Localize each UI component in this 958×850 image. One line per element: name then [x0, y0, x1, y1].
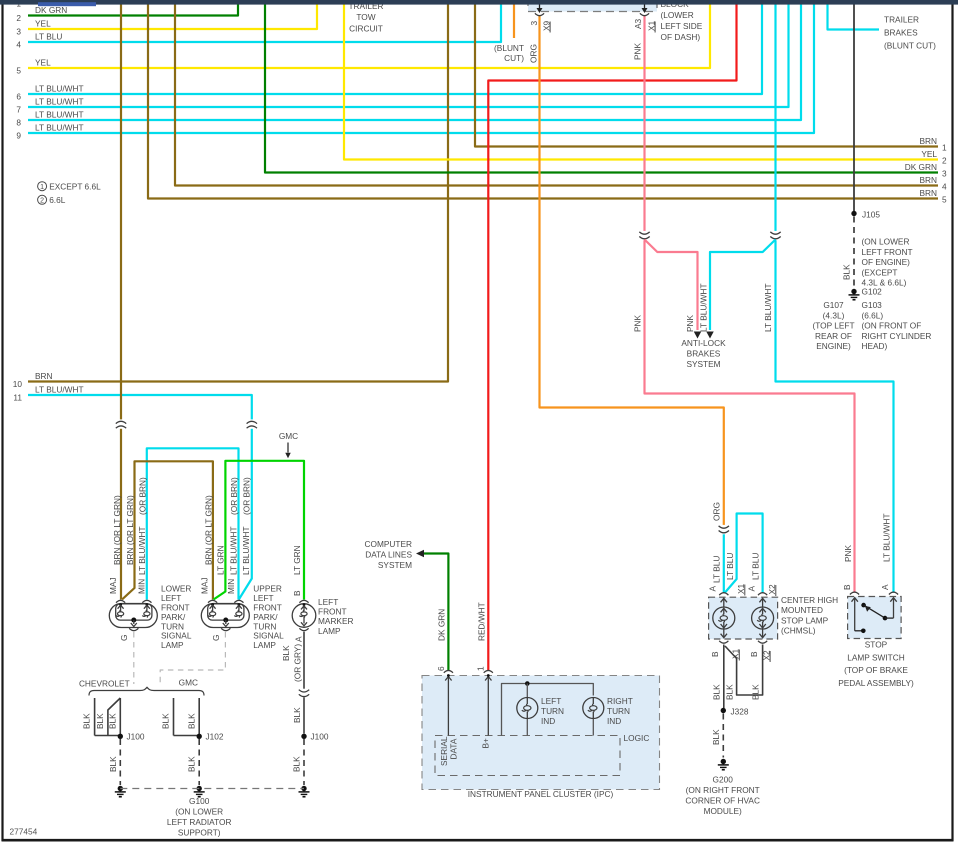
svg-text:CORNER OF HVAC: CORNER OF HVAC	[685, 796, 760, 806]
switch pin cups	[850, 592, 898, 594]
svg-text:(OR BRN): (OR BRN)	[229, 477, 239, 515]
labels BLK chevrolet	[82, 713, 118, 729]
svg-text:LOGIC: LOGIC	[624, 733, 650, 743]
labels BLK gmc	[161, 713, 197, 729]
block pin arrow X9-3	[537, 0, 543, 13]
label PNK branch	[685, 314, 695, 332]
wire YEL 2 horizontal	[344, 5, 947, 166]
svg-text:A3: A3	[633, 18, 643, 29]
switch mechanism	[852, 598, 897, 633]
text instrument panel cluster	[468, 789, 614, 799]
label LT BLU/WHT main	[763, 283, 773, 332]
text trailer tow circuit	[348, 1, 383, 34]
wire 1 number	[16, 0, 21, 9]
svg-text:YEL: YEL	[35, 19, 51, 29]
svg-text:EXCEPT 6.6L: EXCEPT 6.6L	[49, 181, 101, 191]
wire BLK (OR GRY) from marker lamp	[303, 632, 305, 691]
ipc b+ pin arrow	[485, 674, 491, 735]
connector block (lower left side of dash)	[528, 0, 657, 12]
svg-text:4: 4	[942, 182, 947, 192]
label BLK left ground wire	[108, 756, 118, 772]
svg-text:J102: J102	[206, 732, 224, 742]
block pin arrow X1-A3	[642, 0, 648, 13]
svg-text:YEL: YEL	[921, 149, 937, 159]
svg-text:J100: J100	[127, 732, 145, 742]
lamp upper left front park/turn signal	[201, 600, 249, 630]
wire BLK dashed to G100 right	[303, 739, 305, 785]
dashed ground lead lamp1	[133, 632, 135, 684]
pin labels chmsl bottom	[710, 648, 772, 662]
svg-text:9: 9	[16, 131, 21, 141]
svg-text:COMPUTER: COMPUTER	[365, 539, 412, 549]
svg-text:BLK: BLK	[82, 713, 92, 729]
label BLK below connector	[292, 707, 302, 723]
text left front marker lamp	[318, 597, 354, 636]
svg-text:BLK: BLK	[95, 713, 105, 729]
wire LT BLU/WHT branch to anti-lock brakes	[710, 240, 776, 331]
wire BLK gmc b	[198, 698, 200, 734]
svg-text:BLK: BLK	[711, 684, 721, 700]
svg-text:(TOP LEFT: (TOP LEFT	[812, 321, 854, 331]
svg-text:BRN: BRN	[919, 175, 937, 185]
wire BLK chevrolet a	[94, 698, 96, 736]
svg-text:5: 5	[942, 195, 947, 205]
svg-text:4: 4	[16, 40, 21, 50]
svg-text:YEL: YEL	[35, 58, 51, 68]
top navy separator bar	[0, 0, 958, 5]
arrow to computer data lines system	[416, 550, 424, 558]
text block location	[661, 0, 703, 42]
svg-text:PNK: PNK	[843, 544, 853, 562]
svg-text:A: A	[294, 636, 304, 642]
svg-text:BLK: BLK	[107, 713, 117, 729]
wire PNK branch to anti-lock brakes	[645, 240, 698, 331]
svg-text:LT GRN: LT GRN	[292, 545, 302, 575]
text lower left lamp	[161, 584, 192, 650]
pin label 1	[475, 666, 485, 671]
svg-text:LT BLU/WHT: LT BLU/WHT	[137, 526, 147, 575]
svg-text:LEFT RADIATOR: LEFT RADIATOR	[167, 817, 232, 827]
label GMC with arrow	[279, 431, 298, 458]
svg-text:A: A	[880, 584, 890, 590]
lamp lower left front park/turn signal	[109, 600, 157, 630]
pin label B switch	[842, 584, 852, 590]
svg-text:INSTRUMENT PANEL CLUSTER (IPC): INSTRUMENT PANEL CLUSTER (IPC)	[468, 789, 614, 799]
svg-text:LEFT: LEFT	[541, 696, 561, 706]
label BLK mid ground wire	[187, 756, 197, 772]
svg-text:BLK: BLK	[186, 713, 196, 729]
junction J100 left	[118, 732, 145, 742]
label LT GRN marker	[292, 545, 302, 575]
svg-text:7: 7	[16, 105, 21, 115]
legend circled 1 except 6.6L	[38, 181, 101, 191]
pin label X1 block	[646, 20, 656, 32]
svg-text:CUT): CUT)	[504, 53, 524, 63]
svg-text:(BLUNT: (BLUNT	[494, 43, 524, 53]
svg-text:6: 6	[16, 92, 21, 102]
svg-text:8: 8	[16, 118, 21, 128]
ground G100	[194, 786, 205, 797]
instrument panel cluster block	[422, 676, 660, 790]
svg-text:CENTER HIGH: CENTER HIGH	[781, 595, 838, 605]
svg-text:IND: IND	[607, 716, 621, 726]
label LT BLU left	[711, 556, 721, 583]
svg-text:DK GRN: DK GRN	[905, 162, 937, 172]
label B+	[481, 738, 491, 749]
svg-text:BLK: BLK	[292, 707, 302, 723]
text right turn ind	[607, 696, 633, 726]
wire BRN 5 horizontal	[148, 5, 947, 205]
labels BLK chmsl	[711, 684, 760, 700]
svg-text:(OR GRY): (OR GRY)	[293, 644, 303, 682]
svg-text:B: B	[292, 590, 302, 596]
text sheet number 277454	[10, 827, 38, 837]
svg-text:6: 6	[436, 666, 446, 671]
svg-text:BRAKES: BRAKES	[687, 349, 721, 359]
svg-text:A: A	[746, 586, 756, 592]
label DK GRN	[436, 609, 446, 641]
arrow PNK to anti-lock brakes system	[694, 332, 702, 339]
svg-text:ANTI-LOCK: ANTI-LOCK	[681, 338, 726, 348]
svg-text:BLK: BLK	[292, 756, 302, 772]
svg-text:RIGHT CYLINDER: RIGHT CYLINDER	[862, 331, 932, 341]
svg-text:BLK: BLK	[711, 729, 721, 745]
svg-text:STOP: STOP	[865, 640, 888, 650]
svg-text:BRN: BRN	[919, 188, 937, 198]
wire 10 BRN	[13, 5, 448, 390]
wire 3 YEL	[16, 5, 317, 37]
pin label A marker	[294, 636, 304, 642]
svg-text:LAMP SWITCH: LAMP SWITCH	[847, 652, 904, 662]
svg-text:MARKER: MARKER	[318, 616, 354, 626]
svg-text:B+: B+	[481, 738, 491, 749]
svg-text:11: 11	[13, 393, 22, 403]
svg-text:MIN: MIN	[137, 579, 147, 594]
svg-text:(ON FRONT OF: (ON FRONT OF	[862, 321, 922, 331]
svg-text:G100: G100	[189, 796, 210, 806]
svg-text:BRAKES: BRAKES	[884, 28, 918, 38]
chmsl left bulb	[713, 598, 735, 637]
svg-text:2: 2	[40, 198, 44, 205]
svg-text:(CHMSL): (CHMSL)	[781, 626, 816, 636]
svg-text:OF ENGINE): OF ENGINE)	[862, 257, 911, 267]
labels lamp1 wires	[108, 477, 148, 594]
svg-text:(EXCEPT: (EXCEPT	[862, 267, 898, 277]
svg-text:J105: J105	[862, 210, 880, 220]
wire RED/WHT	[488, 5, 736, 672]
svg-text:LT BLU/WHT: LT BLU/WHT	[35, 97, 84, 107]
svg-text:BLK: BLK	[281, 645, 291, 661]
ground G102	[849, 287, 883, 300]
block pin cup X1-A3	[640, 13, 649, 15]
svg-text:BLK: BLK	[751, 684, 761, 700]
svg-text:LT BLU/WHT: LT BLU/WHT	[35, 110, 84, 120]
label PNK top	[633, 42, 643, 60]
ipc pin cup 1	[484, 670, 493, 672]
svg-text:FRONT: FRONT	[318, 607, 347, 617]
text CHEVROLET	[79, 679, 130, 689]
legend circled 2 6.6L	[38, 195, 66, 205]
junction J100 right	[301, 732, 329, 742]
svg-text:TRAILER: TRAILER	[884, 15, 919, 25]
svg-text:B: B	[710, 651, 720, 657]
svg-text:(OR BRN): (OR BRN)	[138, 477, 148, 515]
svg-text:MAJ: MAJ	[108, 577, 118, 594]
pin label A3	[633, 18, 643, 29]
svg-text:MAJ: MAJ	[200, 577, 210, 594]
svg-text:DK GRN: DK GRN	[436, 609, 446, 641]
svg-text:5: 5	[16, 66, 21, 76]
svg-text:(ON LOWER: (ON LOWER	[175, 807, 223, 817]
svg-text:MOUNTED: MOUNTED	[781, 605, 823, 615]
wire LT BLU from connector to CHMSL A-X1	[723, 534, 725, 594]
svg-text:RIGHT: RIGHT	[607, 696, 633, 706]
svg-text:LAMP: LAMP	[318, 626, 341, 636]
svg-text:(ON LOWER: (ON LOWER	[862, 237, 910, 247]
inline connector on LT BLU/WHT	[770, 231, 780, 240]
ipc internal wiring	[502, 681, 594, 735]
svg-text:ORG: ORG	[528, 44, 538, 63]
svg-text:G200: G200	[713, 775, 734, 785]
svg-text:LT BLU/WHT: LT BLU/WHT	[882, 513, 892, 562]
svg-text:BRN (OR LT GRN): BRN (OR LT GRN)	[203, 495, 213, 565]
svg-text:(ON RIGHT FRONT: (ON RIGHT FRONT	[686, 785, 760, 795]
text trailer brakes blunt cut	[884, 15, 936, 51]
pin labels chmsl top	[708, 583, 777, 596]
pin label X9	[541, 20, 551, 32]
inline connector ORG/LT BLU	[719, 525, 729, 534]
label RED/WHT	[476, 602, 486, 641]
svg-text:LT BLU/WHT: LT BLU/WHT	[698, 283, 708, 332]
text chmsl	[781, 595, 838, 636]
text GMC bottom	[179, 678, 198, 688]
wire BLK to J100 right	[303, 697, 305, 733]
svg-text:CIRCUIT: CIRCUIT	[349, 24, 383, 34]
dashed interconnect of grounds	[120, 788, 304, 790]
svg-text:(TOP OF BRAKE: (TOP OF BRAKE	[844, 665, 908, 675]
svg-text:PNK: PNK	[633, 42, 643, 60]
labels BLK OR GRY	[281, 644, 303, 682]
center high mounted stop lamp block	[709, 597, 778, 639]
ipc serial data pin arrow	[445, 674, 451, 735]
svg-text:CHEVROLET: CHEVROLET	[79, 679, 130, 689]
svg-text:2: 2	[942, 156, 947, 166]
svg-text:DK GRN: DK GRN	[35, 5, 67, 15]
text stop lamp switch	[838, 640, 914, 688]
labels lamp2 wires	[200, 477, 252, 594]
svg-text:BLK: BLK	[187, 756, 197, 772]
wire cyan loop lamp1-MIN to lamp2-MIN	[147, 448, 239, 599]
text G103 location	[862, 300, 932, 351]
wire BLK dashed to G100 mid	[198, 739, 200, 785]
ipc right turn indicator bulb	[583, 698, 604, 719]
brace chevrolet/gmc	[89, 687, 204, 695]
svg-text:TURN: TURN	[607, 706, 630, 716]
svg-text:4.3L & 6.6L): 4.3L & 6.6L)	[862, 278, 907, 288]
wire BLK chmsl B jumper	[725, 645, 763, 696]
svg-text:BRN: BRN	[919, 136, 937, 146]
svg-text:BLK: BLK	[108, 756, 118, 772]
svg-text:LEFT FRONT: LEFT FRONT	[862, 247, 913, 257]
svg-text:SUPPORT): SUPPORT)	[178, 828, 221, 838]
svg-text:3: 3	[16, 27, 21, 37]
svg-text:PEDAL ASSEMBLY): PEDAL ASSEMBLY)	[838, 678, 914, 688]
wire BLK gmc a	[173, 698, 175, 736]
ipc pin cup 6	[444, 670, 453, 672]
dashed ground lead lamp2	[160, 632, 225, 684]
svg-text:LAMP: LAMP	[161, 640, 184, 650]
ground right of G100	[299, 786, 310, 797]
wire ORG main	[540, 16, 724, 527]
label ORG blunt cut	[528, 44, 538, 63]
svg-text:G107: G107	[823, 300, 844, 310]
svg-text:LT BLU/WHT: LT BLU/WHT	[763, 283, 773, 332]
svg-text:1: 1	[40, 184, 44, 191]
svg-text:1: 1	[475, 666, 485, 671]
svg-text:MIN: MIN	[226, 579, 236, 594]
svg-text:LT BLU: LT BLU	[751, 553, 761, 580]
wire BLK dashed to G200	[722, 714, 724, 758]
svg-text:B: B	[842, 584, 852, 590]
pin label G lamp1	[119, 635, 129, 641]
svg-text:J328: J328	[731, 707, 749, 717]
label PNK at switch	[843, 544, 853, 562]
svg-text:LT BLU/WHT: LT BLU/WHT	[35, 385, 84, 395]
svg-text:277454: 277454	[10, 827, 38, 837]
svg-text:6.6L: 6.6L	[49, 195, 66, 205]
svg-text:LT BLU: LT BLU	[725, 553, 735, 580]
svg-text:(6.6L): (6.6L)	[862, 310, 884, 320]
wire 2 DK GRN	[16, 5, 238, 24]
svg-text:J100: J100	[311, 732, 329, 742]
svg-text:BRN (OR LT GRN): BRN (OR LT GRN)	[112, 495, 122, 565]
junction J328	[721, 707, 749, 717]
wire BLK chevrolet c	[119, 698, 121, 734]
wire 6 LT BLU/WHT	[16, 5, 762, 102]
svg-text:BLK: BLK	[725, 684, 735, 700]
svg-text:LEFT: LEFT	[318, 597, 338, 607]
inline connector marker ground wire	[299, 689, 309, 698]
wire DK GRN to computer data lines	[424, 554, 448, 672]
wire DK GRN 3 horizontal	[265, 5, 947, 179]
wire BLK chmsl B-X1 down	[723, 645, 725, 709]
wire brown to lower lamp MAJ	[120, 5, 122, 600]
pin label A switch	[880, 584, 890, 590]
svg-text:STOP LAMP: STOP LAMP	[781, 615, 829, 625]
svg-text:LT BLU/WHT: LT BLU/WHT	[35, 84, 84, 94]
svg-text:10: 10	[13, 379, 23, 389]
stop lamp switch block	[848, 597, 902, 639]
text computer data lines system	[365, 539, 413, 570]
svg-text:GMC: GMC	[179, 678, 198, 688]
lamp left front marker	[292, 600, 316, 630]
label LT BLU/WHT at switch	[882, 513, 892, 562]
label PNK main	[633, 314, 643, 332]
pin label 3	[529, 21, 539, 26]
wire BLK gmc bottom joint	[174, 735, 199, 737]
inline connector on PNK	[639, 231, 649, 240]
svg-text:G103: G103	[862, 300, 883, 310]
wire BLK dashed to G102	[853, 217, 855, 289]
wire 11 LT BLU/WHT	[13, 385, 251, 600]
svg-text:BRN: BRN	[35, 371, 53, 381]
wire LT GRN to lamps	[214, 461, 305, 600]
svg-text:MODULE): MODULE)	[704, 806, 742, 816]
text G200 location	[685, 775, 760, 817]
wire BRN 4 horizontal	[175, 5, 947, 192]
labels LT BLU jumper	[725, 553, 760, 580]
svg-text:LT BLU/WHT: LT BLU/WHT	[241, 526, 251, 575]
svg-text:A: A	[708, 586, 718, 592]
svg-text:LT BLU: LT BLU	[35, 32, 62, 42]
wire 8 LT BLU/WHT	[16, 5, 801, 128]
wire 5 YEL	[16, 5, 710, 76]
svg-text:LT GRN: LT GRN	[215, 545, 225, 575]
svg-text:3: 3	[942, 169, 947, 179]
svg-text:DATA: DATA	[449, 738, 459, 759]
svg-text:HEAD): HEAD)	[862, 341, 888, 351]
ground left of G100	[115, 786, 126, 797]
inline connector C1 on brown wire	[116, 419, 126, 428]
text G102 location	[862, 237, 913, 288]
svg-text:LAMP: LAMP	[253, 640, 276, 650]
svg-text:(OR BRN): (OR BRN)	[242, 477, 252, 515]
wire BRN 1 horizontal	[475, 5, 947, 153]
svg-text:LEFT SIDE: LEFT SIDE	[661, 21, 703, 31]
wire LT BLU/WHT lower run to stop lamp switch	[776, 240, 894, 593]
svg-text:OF DASH): OF DASH)	[661, 32, 701, 42]
svg-text:TOW: TOW	[356, 12, 375, 22]
svg-text:PNK: PNK	[633, 314, 643, 332]
svg-text:REAR OF: REAR OF	[815, 331, 852, 341]
labels serial data	[439, 736, 458, 766]
label BLK G200 wire	[711, 729, 721, 745]
label LT BLU/WHT branch	[698, 283, 708, 332]
arrow LT BLU/WHT to anti-lock brakes system	[706, 332, 714, 339]
wire BLK dashed to G100 left	[119, 739, 121, 785]
svg-text:SYSTEM: SYSTEM	[378, 560, 412, 570]
svg-text:TURN: TURN	[541, 706, 564, 716]
wire BLK chevrolet b	[108, 698, 120, 736]
svg-text:2: 2	[16, 13, 21, 23]
pin label B marker lamp	[292, 590, 302, 596]
label BLK G102 wire	[842, 264, 852, 280]
svg-text:LT BLU: LT BLU	[711, 556, 721, 583]
svg-text:(LOWER: (LOWER	[661, 10, 694, 20]
ground G200	[718, 759, 729, 770]
label BLK right ground wire	[292, 756, 302, 772]
wire 9 LT BLU/WHT	[16, 5, 814, 141]
ipc left turn indicator bulb	[517, 698, 538, 719]
svg-text:DATA LINES: DATA LINES	[365, 550, 412, 560]
text anti-lock brakes system	[681, 338, 726, 369]
wire PNK main	[643, 16, 645, 233]
svg-text:(BLUNT CUT): (BLUNT CUT)	[884, 41, 936, 51]
svg-text:ENGINE): ENGINE)	[816, 341, 851, 351]
text upper left lamp	[253, 584, 284, 650]
pin label 6	[436, 666, 446, 671]
label ORG near CHMSL	[711, 502, 721, 521]
wire 7 LT BLU/WHT	[16, 5, 788, 115]
text left turn ind	[541, 696, 564, 726]
svg-text:SYSTEM: SYSTEM	[686, 359, 720, 369]
pin label G lamp2	[211, 635, 221, 641]
text G107 location	[812, 300, 854, 351]
wire LT BLU/WHT trailer brakes	[828, 5, 880, 30]
svg-text:(4.3L): (4.3L)	[823, 310, 845, 320]
svg-text:G: G	[211, 635, 221, 641]
wire BLK chevrolet bottom joint	[95, 735, 119, 737]
